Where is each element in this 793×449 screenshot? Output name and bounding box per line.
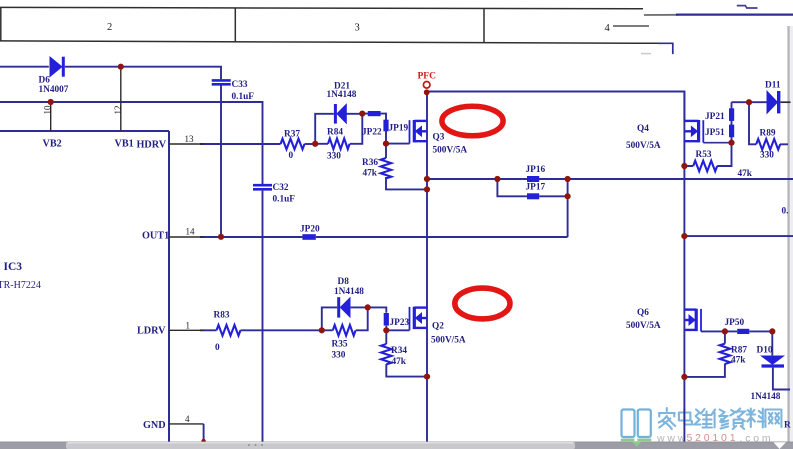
top-right gray wire stub xyxy=(644,14,678,16)
faint dash xyxy=(641,53,651,55)
resistor R84 xyxy=(328,139,350,150)
wire gate lead Q3 xyxy=(386,143,410,145)
mouse cursor xyxy=(774,442,787,449)
wire OUT1 run xyxy=(200,236,568,238)
wire main column Q4/Q6 xyxy=(683,92,685,443)
capacitor C32 xyxy=(253,185,272,189)
svg-text:12: 12 xyxy=(113,106,123,115)
svg-text:1: 1 xyxy=(186,320,191,330)
junction node A xyxy=(312,141,318,147)
annotation ellipse 1 xyxy=(442,106,503,136)
junction gate Q6 xyxy=(722,328,728,334)
jumper JP20 xyxy=(302,234,315,240)
wire R53 leads xyxy=(684,143,731,166)
junction node B xyxy=(359,111,365,117)
svg-text:1N4148: 1N4148 xyxy=(751,392,781,402)
svg-text:R36: R36 xyxy=(362,158,378,168)
jumper JP21 xyxy=(729,108,734,121)
wire LDRV to R83 xyxy=(200,329,217,331)
jumper JP16 xyxy=(527,176,539,182)
junction JP16 right xyxy=(565,176,571,182)
svg-text:R83: R83 xyxy=(214,311,230,321)
svg-text:D8: D8 xyxy=(338,277,350,287)
svg-text:IC3: IC3 xyxy=(4,261,23,273)
svg-text:Q3: Q3 xyxy=(433,133,445,143)
resistor R89 xyxy=(756,139,780,150)
dash right of zone 4 xyxy=(613,25,649,27)
jumper JP50 xyxy=(737,329,749,334)
wire JP21/JP51 column xyxy=(731,102,733,143)
top-right blue wire to edge xyxy=(676,14,793,16)
pfc node circle xyxy=(423,82,430,89)
pin numbers xyxy=(43,105,196,424)
mosfet Q6 xyxy=(684,309,701,332)
annotation ellipse 2 xyxy=(455,288,510,319)
wire D11 anode run xyxy=(732,101,768,103)
wire JP23 to gate node Q2 xyxy=(385,326,387,331)
svg-text:GND: GND xyxy=(143,420,166,431)
jumper JP19 xyxy=(383,120,388,132)
junction D10 top xyxy=(769,328,775,334)
zone tick 2/3 xyxy=(234,8,236,42)
svg-text:JP17: JP17 xyxy=(526,183,546,193)
wire node B through JP22 to JP19 xyxy=(362,114,386,120)
resistor R87 xyxy=(720,344,731,364)
zone tick 3/4 xyxy=(483,9,485,43)
pin 4 xyxy=(169,423,204,425)
svg-text:Q4: Q4 xyxy=(637,124,649,134)
svg-text:Q2: Q2 xyxy=(432,322,444,332)
junction D8 node xyxy=(365,304,371,310)
junction R53 left xyxy=(681,163,687,169)
svg-text:0.1uF: 0.1uF xyxy=(273,195,296,205)
svg-text:C32: C32 xyxy=(273,183,289,193)
resistor R53 xyxy=(693,161,717,172)
junction JP17 right xyxy=(565,193,571,199)
wire R37 to node A xyxy=(305,143,316,145)
svg-text:500V/5A: 500V/5A xyxy=(433,146,468,156)
resistor R36 xyxy=(381,158,392,178)
wire C33 bottom to OUT1 xyxy=(220,85,222,236)
wire PFC rail xyxy=(427,92,685,121)
svg-text:JP19: JP19 xyxy=(389,124,409,134)
wire R84 leads xyxy=(315,114,362,144)
wire node A up to D21 xyxy=(315,114,362,144)
svg-text:3: 3 xyxy=(355,23,360,34)
svg-text:0.1uF: 0.1uF xyxy=(232,92,255,102)
svg-text:R34: R34 xyxy=(391,346,407,356)
svg-text:0: 0 xyxy=(289,151,294,161)
pin 10 xyxy=(50,102,52,131)
svg-text:JP22: JP22 xyxy=(362,127,382,137)
svg-text:R87: R87 xyxy=(731,346,747,356)
wire HDRV pin13 to R37 xyxy=(200,143,281,145)
junction Q3 source rail xyxy=(424,176,430,182)
junction gate Q3 xyxy=(383,141,389,147)
jumper JP51 xyxy=(729,125,734,138)
mosfet Q4 xyxy=(684,120,703,143)
junction R83 node xyxy=(319,327,325,333)
svg-text:47k: 47k xyxy=(731,356,746,366)
diode D8 1N4148 xyxy=(339,297,350,317)
mosfet Q3 xyxy=(410,120,428,144)
svg-text:330: 330 xyxy=(760,151,774,161)
svg-text:R35: R35 xyxy=(332,340,348,350)
svg-text:LDRV: LDRV xyxy=(137,325,166,336)
wire JP16 right node down to OUT1 xyxy=(567,179,569,237)
wire R87 leads xyxy=(684,331,725,377)
junction GND bottom xyxy=(201,439,205,443)
svg-text:4: 4 xyxy=(605,23,611,34)
pin 1 xyxy=(169,329,204,331)
junction D11 anode xyxy=(746,99,752,105)
small blue hook top right xyxy=(737,6,758,8)
D11 cathode wire (dark) xyxy=(781,101,791,103)
resistor R83 xyxy=(217,325,241,336)
junction right rail xyxy=(681,233,687,239)
wire C32 bottom column xyxy=(262,191,264,442)
junction R87 return xyxy=(681,374,687,380)
wire D10 leads xyxy=(772,331,790,389)
wire node up to D8 xyxy=(322,307,368,330)
svg-text:10: 10 xyxy=(43,105,53,115)
wire source rail y179 xyxy=(427,178,793,180)
svg-text:D6: D6 xyxy=(39,76,51,86)
wire R83 to node xyxy=(241,329,322,331)
svg-text:1N4148: 1N4148 xyxy=(327,90,357,100)
svg-text:500V/5A: 500V/5A xyxy=(626,321,661,331)
junction wireB/pin10 xyxy=(48,99,54,105)
svg-text:D11: D11 xyxy=(765,81,781,91)
wire hook below border xyxy=(658,43,673,54)
capacitor C33 xyxy=(212,80,231,84)
junction gate Q2 xyxy=(383,327,389,333)
pin 12 xyxy=(120,67,122,131)
svg-text:14: 14 xyxy=(186,226,196,236)
wire JP17 branch xyxy=(497,179,567,196)
svg-text:C33: C33 xyxy=(232,80,248,90)
wire gate lead Q6 xyxy=(701,330,737,332)
svg-text:500V/5A: 500V/5A xyxy=(626,141,661,151)
svg-text:VB2: VB2 xyxy=(43,139,62,150)
svg-text:HDRV: HDRV xyxy=(137,139,167,150)
svg-text:Q6: Q6 xyxy=(637,308,649,318)
svg-text:0: 0 xyxy=(215,343,220,353)
svg-text:JP23: JP23 xyxy=(390,318,410,328)
diode D6 1N4007 xyxy=(50,57,63,77)
svg-text:D10: D10 xyxy=(757,346,773,356)
svg-text:1N4007: 1N4007 xyxy=(39,85,69,95)
svg-text:VB1: VB1 xyxy=(115,139,134,150)
jumper JP17 xyxy=(527,193,539,199)
wire right rail y236 xyxy=(684,235,793,237)
sheet border line bottom xyxy=(0,41,658,43)
svg-text:47k: 47k xyxy=(363,169,378,179)
diode D21 1N4148 xyxy=(335,104,346,124)
resistor R35 xyxy=(333,325,356,336)
jumper JP22 xyxy=(368,111,381,116)
svg-text:JP51: JP51 xyxy=(705,128,725,138)
resistor R37 xyxy=(281,139,305,150)
svg-text:R53: R53 xyxy=(696,150,712,160)
wire B (lower left rail) xyxy=(0,102,263,184)
svg-text:JP21: JP21 xyxy=(705,112,725,122)
svg-text:JP50: JP50 xyxy=(725,318,745,328)
junction JP16 left xyxy=(494,176,500,182)
wire JP50 to D10 node xyxy=(749,330,772,332)
pin 14 xyxy=(169,236,204,238)
svg-text:R89: R89 xyxy=(760,129,776,139)
svg-text:R84: R84 xyxy=(327,127,343,137)
junction R36 return xyxy=(424,186,430,192)
wire gate lead Q2 xyxy=(386,329,409,331)
wire D8 node to JP23 xyxy=(368,307,387,312)
junction JP51 bottom xyxy=(728,140,734,146)
jumper JP23 xyxy=(384,313,389,326)
svg-text:JP16: JP16 xyxy=(526,165,546,175)
wire R34 leads xyxy=(386,330,427,376)
right window scrollbar strip xyxy=(787,26,793,442)
resistor R34 xyxy=(381,344,392,364)
svg-text:TR-H7224: TR-H7224 xyxy=(0,280,41,291)
svg-text:JP20: JP20 xyxy=(300,224,320,234)
svg-text:0.: 0. xyxy=(782,207,789,217)
pin 13 xyxy=(169,143,204,145)
svg-text:OUT1: OUT1 xyxy=(142,230,169,241)
junction OUT1/C33 xyxy=(218,234,224,240)
mosfet Q2 xyxy=(410,307,428,331)
svg-text:PFC: PFC xyxy=(418,71,437,81)
svg-text:R: R xyxy=(784,421,791,431)
wire R35 leads xyxy=(322,307,368,330)
wire GND drop xyxy=(203,424,205,442)
svg-text:4: 4 xyxy=(185,414,190,424)
watermark green triangle over bar xyxy=(632,441,642,446)
svg-text:330: 330 xyxy=(332,351,346,361)
watermark book icon xyxy=(622,410,651,438)
IC3 box right edge xyxy=(168,131,170,442)
diode D10 xyxy=(762,356,785,366)
wire R36 leads xyxy=(386,144,427,190)
watermark chinese text 家电维修资料网 xyxy=(659,408,782,429)
zone tick left xyxy=(0,7,2,41)
IC3 pin names xyxy=(43,139,170,432)
svg-text:47k: 47k xyxy=(392,357,407,367)
watermark url www.520101.com xyxy=(656,432,773,445)
junction wireA/pin12 xyxy=(118,64,124,70)
wire JP19 to gate node xyxy=(385,131,387,144)
wire A (D6 top rail) xyxy=(0,67,221,80)
IC3 box top edge xyxy=(0,130,169,132)
svg-text:47k: 47k xyxy=(738,169,753,179)
wire main column Q3/Q2 xyxy=(426,92,428,442)
watermark green base xyxy=(621,439,652,447)
diode D11 xyxy=(767,91,779,113)
wire Q4 gate lead xyxy=(703,142,731,144)
svg-text:500V/5A: 500V/5A xyxy=(431,336,466,346)
svg-text:13: 13 xyxy=(185,134,195,144)
svg-text:2: 2 xyxy=(107,22,112,33)
svg-text:330: 330 xyxy=(327,152,341,162)
bottom scrollbar xyxy=(0,442,793,449)
wire R89 leads xyxy=(749,102,788,144)
svg-text:1N4148: 1N4148 xyxy=(334,287,364,297)
svg-text:R37: R37 xyxy=(284,129,300,139)
sheet border line top xyxy=(0,7,658,43)
junction R34 return xyxy=(424,374,430,380)
